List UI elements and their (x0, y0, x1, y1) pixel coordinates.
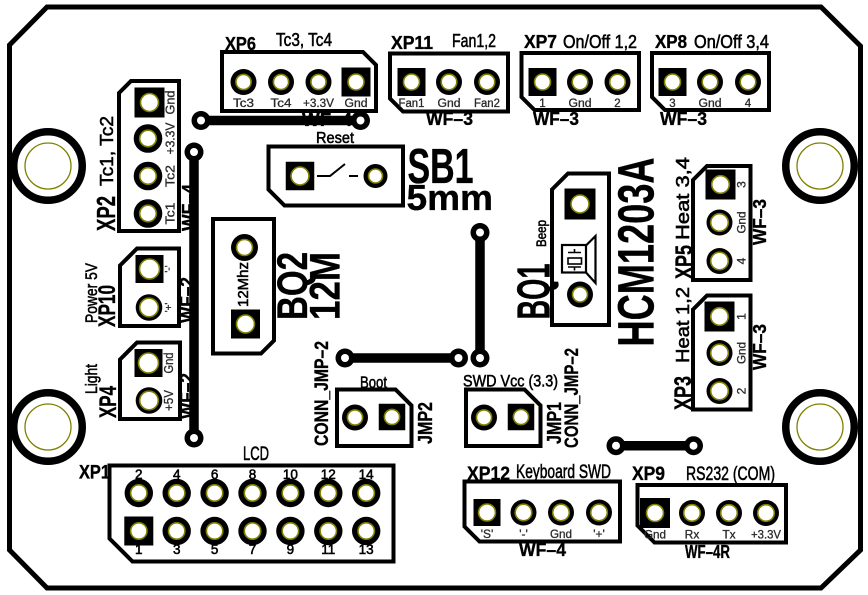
svg-text:XP12: XP12 (467, 464, 510, 485)
connector XP10 body (120, 249, 179, 327)
XP7 title (563, 32, 637, 52)
XP1 pin 2 (125, 479, 153, 507)
jumper JMP2 body (337, 390, 412, 447)
svg-text:On/Off 1,2: On/Off 1,2 (563, 32, 637, 52)
svg-text:XP8: XP8 (655, 32, 687, 52)
svg-text:+3.3V: +3.3V (163, 122, 178, 154)
XP4 footprint label WF-2 (under trace) (177, 373, 197, 419)
XP3 pin Gnd (707, 340, 733, 366)
XP1 pin 1 (124, 517, 153, 546)
XP4 title Light (82, 364, 101, 394)
XP8 designator (655, 32, 687, 52)
XP10 title Power 5V (82, 262, 101, 323)
svg-text:5: 5 (211, 542, 219, 557)
connector XP8 body (652, 53, 769, 110)
connector XP9 body (638, 485, 787, 543)
XP8 footprint label WF-3 (660, 109, 707, 129)
svg-text:12M: 12M (302, 252, 350, 320)
svg-text:Tc4: Tc4 (271, 98, 293, 110)
connector XP11 body (390, 54, 508, 112)
XP12 title Keyboard SWD (516, 462, 611, 483)
svg-text:Tc1, Tc2: Tc1, Tc2 (97, 116, 117, 186)
connector XP3 body (693, 296, 751, 410)
wire: bottom right trace (616, 441, 694, 451)
svg-text:CONN_JMP–2: CONN_JMP–2 (561, 348, 583, 448)
XP1 pin 4 (163, 479, 191, 507)
XP9 title RS232 (COM) (686, 464, 775, 485)
svg-text:Beep: Beep (533, 220, 549, 247)
XP3 pin labels (735, 313, 749, 395)
svg-text:2: 2 (735, 387, 749, 394)
svg-text:'-': '-' (164, 265, 175, 272)
XP4 pin labels (162, 352, 176, 411)
BQ1 label Beep (533, 220, 549, 247)
connector XP7 body (522, 53, 640, 110)
SB1 pin 2 (364, 164, 388, 188)
svg-text:Gnd: Gnd (163, 91, 178, 115)
connector XP1 body (110, 466, 394, 562)
connector XP12 body (465, 482, 621, 542)
svg-text:HCM1203A: HCM1203A (608, 158, 665, 347)
svg-text:Gnd: Gnd (162, 352, 176, 373)
svg-text:Tx: Tx (722, 528, 735, 542)
JMP1 label SWD Vcc (3.3) (463, 372, 558, 391)
svg-text:9: 9 (287, 542, 295, 557)
XP8 pin 4 (735, 69, 761, 95)
svg-text:Gnd: Gnd (735, 212, 749, 234)
svg-text:8: 8 (249, 467, 257, 482)
XP1 pin 8 (238, 479, 266, 507)
XP2 footprint label WF-4 (under trace) (179, 184, 199, 231)
svg-text:Heat 1,2: Heat 1,2 (673, 287, 693, 363)
svg-text:+3.3V: +3.3V (303, 98, 334, 110)
via at top of centre vertical trace (471, 223, 490, 242)
XP12 footprint label WF-4 (519, 540, 566, 560)
BQ2 value 12M (302, 252, 350, 320)
XP8 pin Gnd (697, 69, 723, 95)
XP6 pin Gnd (square) (342, 68, 371, 97)
svg-text:'-': '-' (519, 527, 528, 541)
XP2 pin labels (163, 91, 178, 225)
svg-text:13: 13 (359, 542, 374, 557)
XP1 pin 6 (200, 479, 228, 507)
XP1 designator (79, 463, 110, 484)
via at bottom of centre vertical trace (471, 349, 490, 368)
JMP1 pin 2 (square) (508, 404, 535, 431)
XP10 pin labels (164, 265, 175, 312)
svg-text:Gnd: Gnd (550, 527, 572, 541)
XP2 pin Tc2 (134, 162, 163, 191)
XP3 title Heat 1,2 (673, 287, 693, 363)
svg-text:XP7: XP7 (524, 32, 557, 52)
XP2 title Tc1, Tc2 (97, 116, 117, 186)
svg-text:6: 6 (211, 467, 219, 482)
XP6 pin Tc4 (268, 69, 294, 95)
XP7 footprint label WF-3 (533, 109, 579, 129)
svg-text:12Mhz: 12Mhz (235, 262, 252, 307)
JMP2 designator (415, 402, 437, 444)
XP1 top pin numbers (135, 467, 374, 482)
XP9 designator (632, 464, 665, 485)
svg-text:4: 4 (745, 98, 752, 110)
SB1 pin 1 (square) (286, 162, 315, 191)
svg-text:4: 4 (173, 467, 181, 482)
svg-text:Reset: Reset (316, 130, 355, 147)
via at bottom of left vertical trace (185, 429, 204, 448)
XP8 pin 3 (square) (659, 68, 687, 96)
connector XP5 body (693, 166, 751, 280)
svg-text:On/Off 3,4: On/Off 3,4 (694, 32, 769, 52)
svg-text:'+': '+' (593, 527, 605, 541)
XP5 pin 4 (707, 248, 733, 274)
XP2 designator (91, 196, 121, 231)
XP6 footprint label WF-4 (under trace) (302, 110, 352, 130)
XP3 footprint label WF-3 (750, 324, 770, 370)
XP5 pin labels (735, 181, 749, 265)
svg-text:3: 3 (735, 181, 749, 188)
wire: centre vertical trace (475, 233, 485, 359)
svg-text:SWD Vcc (3.3): SWD Vcc (3.3) (463, 372, 558, 391)
XP1 pin 11 (314, 517, 342, 545)
svg-text:14: 14 (359, 467, 375, 482)
mounting hole top-right (786, 132, 855, 201)
buzzer BQ1 body (552, 174, 609, 326)
BQ1 speaker icon (562, 236, 596, 283)
BQ1 value HCM1203A (608, 158, 665, 347)
XP10 pin '+' (136, 294, 163, 321)
SB1 switch symbol (317, 164, 358, 176)
svg-text:2: 2 (614, 98, 620, 110)
svg-text:CONN_JMP–2: CONN_JMP–2 (311, 341, 333, 446)
crystal BQ2 body (213, 219, 274, 354)
XP2 pin +3.3V (134, 124, 163, 153)
svg-text:XP4: XP4 (95, 386, 122, 418)
XP11 pin labels (399, 98, 501, 110)
svg-text:WF–3: WF–3 (660, 109, 707, 129)
XP9 footprint label WF-4R (685, 542, 730, 562)
XP10 footprint label WF-2 (under trace) (177, 277, 197, 323)
svg-text:Fan1: Fan1 (399, 98, 425, 110)
svg-text:+3.3V: +3.3V (751, 528, 781, 542)
via at right end of centre horizontal trace (449, 349, 468, 368)
svg-text:1: 1 (135, 542, 143, 557)
wire: centre horizontal trace (345, 353, 459, 363)
svg-text:XP6: XP6 (225, 34, 256, 54)
svg-text:WF–3: WF–3 (533, 109, 579, 129)
connector XP2 body (119, 81, 179, 231)
BQ2 label 12Mhz (235, 262, 252, 307)
XP5 pin 3 (square) (706, 170, 736, 200)
BQ2 designator (269, 252, 317, 320)
XP1 pin 9 (276, 517, 304, 545)
XP7 pin labels (539, 98, 620, 110)
XP1 pin 10 (276, 479, 304, 507)
svg-text:Fan1,2: Fan1,2 (452, 31, 496, 51)
XP9 pin +3.3V (753, 500, 779, 526)
svg-text:XP10: XP10 (94, 285, 121, 327)
XP3 pin 1 (square) (705, 302, 735, 332)
SB1 label Reset (316, 130, 355, 147)
JMP2 label Boot (360, 373, 387, 392)
XP12 pin 'S' (square) (474, 499, 501, 526)
XP1 pin 5 (200, 517, 228, 545)
mounting hole bottom-right (786, 393, 855, 462)
connector XP4 body (120, 343, 180, 420)
XP1 title LCD (243, 444, 269, 465)
XP4 pin Gnd (square) (135, 349, 163, 377)
JMP1 designator (544, 402, 566, 444)
mounting hole top-left (14, 132, 83, 201)
mounting hole bottom-left (14, 393, 83, 462)
svg-text:XP11: XP11 (391, 33, 433, 53)
svg-text:7: 7 (249, 542, 257, 557)
XP1 pin 3 (163, 517, 191, 545)
XP9 pin Tx (716, 500, 742, 526)
XP6 designator (225, 34, 256, 54)
XP11 pin Gnd (436, 69, 462, 95)
svg-text:'+': '+' (164, 303, 175, 313)
svg-text:5mm: 5mm (407, 177, 494, 218)
XP8 title (694, 32, 769, 52)
XP1 pin 14 (352, 479, 380, 507)
XP1 pin 12 (314, 479, 342, 507)
svg-text:WF–4R: WF–4R (685, 542, 730, 562)
svg-text:Fan2: Fan2 (474, 98, 500, 110)
svg-text:'S': 'S' (481, 527, 494, 541)
XP11 designator (391, 33, 433, 53)
via at left end of centre horizontal trace (336, 349, 355, 368)
via at left end of top trace (192, 111, 211, 130)
XP6 title (276, 30, 332, 50)
XP11 title (452, 31, 496, 51)
svg-text:Heat 3,4: Heat 3,4 (673, 157, 693, 240)
JMP2 pin 1 (342, 405, 368, 431)
XP12 pin '+' (586, 500, 612, 526)
XP12 pin Gnd (548, 500, 574, 526)
connector XP6 body (222, 52, 376, 111)
XP6 pin labels (233, 98, 368, 110)
svg-text:XP2: XP2 (91, 196, 121, 231)
XP7 pin 1 (square) (529, 68, 557, 96)
svg-text:Rx: Rx (685, 528, 700, 542)
svg-text:Tc1: Tc1 (163, 203, 178, 225)
XP12 pin '-' (511, 500, 537, 526)
XP12 designator (467, 464, 510, 485)
svg-text:WF–3: WF–3 (750, 199, 770, 245)
XP7 pin Gnd (567, 69, 593, 95)
svg-text:4: 4 (735, 257, 749, 264)
svg-text:12: 12 (321, 467, 336, 482)
XP1 pin 13 (352, 517, 380, 545)
XP5 title Heat 3,4 (673, 157, 693, 240)
XP3 designator (670, 376, 697, 410)
XP8 pin labels (669, 98, 752, 110)
svg-text:XP5: XP5 (671, 245, 698, 279)
svg-text:Keyboard SWD: Keyboard SWD (516, 462, 611, 483)
XP10 designator (94, 285, 121, 327)
via at right end of bottom right trace (684, 436, 703, 455)
svg-text:RS232 (COM): RS232 (COM) (686, 464, 775, 485)
XP11 pin Fan1 (square) (398, 68, 426, 96)
BQ1 pin - (567, 282, 593, 308)
svg-text:10: 10 (283, 467, 298, 482)
via at left end of bottom right trace (607, 436, 626, 455)
JMP2 footprint label CONN_JMP-2 (311, 341, 333, 446)
svg-text:3: 3 (173, 542, 181, 557)
svg-text:1: 1 (735, 313, 749, 320)
JMP2 pin 2 (square) (379, 404, 406, 431)
svg-text:Gnd: Gnd (345, 98, 368, 110)
svg-text:11: 11 (321, 542, 335, 557)
svg-text:JMP2: JMP2 (415, 402, 437, 444)
svg-text:Gnd: Gnd (735, 342, 749, 364)
svg-text:XP3: XP3 (670, 376, 697, 410)
svg-text:Gnd: Gnd (644, 528, 666, 542)
XP4 pin +5V (136, 387, 163, 414)
BQ1 designator (508, 264, 560, 320)
svg-text:WF–3: WF–3 (750, 324, 770, 370)
XP6 pin +3.3V (306, 69, 332, 95)
BQ2 pin 2 (square) (231, 310, 260, 339)
svg-text:2: 2 (135, 467, 143, 482)
SB1 value 5mm (407, 177, 494, 218)
svg-text:WF–3: WF–3 (426, 109, 473, 129)
XP1 bottom pin numbers (135, 542, 374, 557)
XP2 pin Gnd (square) (135, 88, 165, 118)
XP3 pin 2 (707, 378, 733, 404)
XP2 pin Tc1 (134, 199, 163, 228)
JMP1 footprint label CONN_JMP-2 (561, 348, 583, 448)
svg-text:WF–4: WF–4 (519, 540, 566, 560)
jumper JMP1 body (466, 390, 541, 447)
via at right end of top trace (Reset) (351, 111, 370, 130)
XP6 pin Tc3 (231, 69, 257, 95)
svg-text:Tc3: Tc3 (233, 98, 254, 110)
XP7 pin 2 (605, 69, 631, 95)
svg-text:Tc3, Tc4: Tc3, Tc4 (276, 30, 332, 50)
svg-text:XP1: XP1 (79, 463, 110, 484)
svg-text:Boot: Boot (360, 373, 387, 392)
svg-text:Tc2: Tc2 (163, 165, 178, 187)
svg-text:LCD: LCD (243, 444, 269, 465)
XP12 pin labels (481, 527, 605, 541)
XP10 pin '-' (square) (136, 255, 164, 283)
XP5 footprint label WF-3 (750, 199, 770, 245)
XP9 pin Rx (679, 500, 705, 526)
svg-text:XP9: XP9 (632, 464, 665, 485)
wire: top horizontal trace (201, 116, 361, 126)
svg-text:BQ1: BQ1 (508, 264, 560, 320)
svg-text:+5V: +5V (162, 389, 176, 411)
JMP1 pin 1 (471, 405, 497, 431)
wire: left vertical trace (189, 152, 199, 438)
XP9 pin Gnd (square) (640, 498, 670, 528)
via at top of left vertical trace (185, 143, 204, 162)
XP1 pin 7 (238, 517, 266, 545)
XP11 pin Fan2 (474, 69, 500, 95)
XP9 pin labels (644, 528, 781, 542)
XP5 designator (671, 245, 698, 279)
XP11 footprint label WF-3 (426, 109, 473, 129)
button SB1 body (269, 147, 404, 206)
BQ1 pin + (square) (565, 189, 596, 220)
SB1 designator (408, 140, 474, 194)
XP4 designator (95, 386, 122, 418)
XP7 designator (524, 32, 557, 52)
BQ2 pin 1 (231, 234, 258, 261)
XP5 pin Gnd (707, 210, 733, 236)
